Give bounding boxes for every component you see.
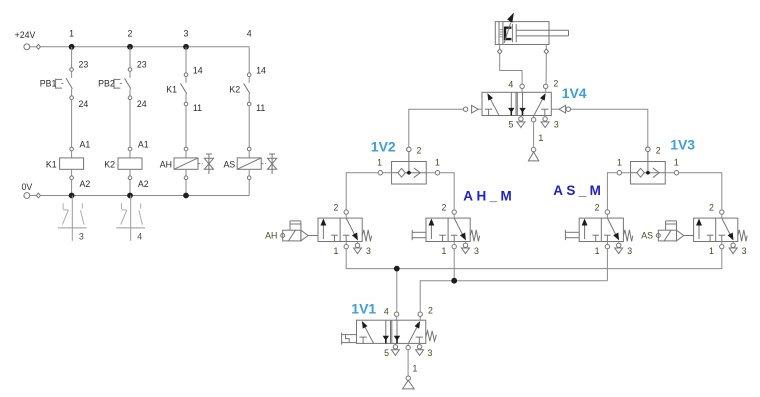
svg-text:14: 14 — [256, 65, 266, 75]
svg-text:1: 1 — [333, 246, 338, 256]
svg-text:K2: K2 — [104, 160, 115, 170]
svg-text:1V2: 1V2 — [371, 139, 396, 155]
svg-text:3: 3 — [79, 231, 84, 241]
svg-text:AS: AS — [641, 230, 653, 240]
svg-text:2: 2 — [553, 79, 558, 89]
svg-text:3: 3 — [742, 246, 747, 256]
svg-text:1: 1 — [595, 246, 600, 256]
svg-text:24: 24 — [79, 99, 89, 109]
svg-text:5: 5 — [384, 348, 389, 358]
svg-text:A2: A2 — [80, 179, 91, 189]
svg-text:AH: AH — [160, 160, 172, 170]
svg-text:K1: K1 — [46, 160, 57, 170]
svg-text:+24V: +24V — [15, 30, 36, 40]
svg-text:1: 1 — [377, 158, 382, 168]
svg-text:4: 4 — [247, 28, 252, 38]
svg-text:1V4: 1V4 — [562, 85, 587, 101]
svg-text:1: 1 — [69, 28, 74, 38]
svg-text:A1: A1 — [138, 140, 149, 150]
svg-text:PB1: PB1 — [40, 79, 57, 89]
svg-text:2: 2 — [656, 145, 661, 155]
svg-text:2: 2 — [128, 28, 133, 38]
svg-text:1: 1 — [435, 158, 440, 168]
svg-text:AS: AS — [223, 160, 235, 170]
svg-text:14: 14 — [193, 65, 203, 75]
svg-text:1V3: 1V3 — [670, 137, 695, 153]
svg-text:2: 2 — [416, 145, 421, 155]
svg-text:1: 1 — [441, 246, 446, 256]
svg-text:1: 1 — [674, 158, 679, 168]
svg-text:K2: K2 — [229, 84, 240, 94]
svg-text:PB2: PB2 — [98, 79, 115, 89]
svg-text:23: 23 — [137, 59, 147, 69]
svg-text:23: 23 — [79, 59, 89, 69]
svg-text:3: 3 — [428, 348, 433, 358]
svg-text:1: 1 — [709, 246, 714, 256]
svg-text:AH_M: AH_M — [463, 189, 515, 204]
svg-text:2: 2 — [428, 306, 433, 316]
svg-text:11: 11 — [193, 103, 202, 113]
svg-text:3: 3 — [474, 246, 479, 256]
svg-text:3: 3 — [554, 120, 559, 130]
svg-text:1V1: 1V1 — [351, 300, 376, 316]
svg-text:5: 5 — [508, 120, 513, 130]
svg-text:2: 2 — [595, 203, 600, 213]
svg-text:1: 1 — [617, 158, 622, 168]
svg-text:K1: K1 — [166, 84, 177, 94]
svg-text:2: 2 — [333, 203, 338, 213]
svg-text:3: 3 — [184, 28, 189, 38]
svg-text:4: 4 — [508, 80, 513, 90]
svg-text:AH: AH — [265, 230, 277, 240]
svg-text:24: 24 — [137, 99, 147, 109]
svg-text:1: 1 — [538, 133, 543, 143]
svg-text:4: 4 — [384, 306, 389, 316]
svg-text:A2: A2 — [138, 179, 149, 189]
svg-text:0V: 0V — [22, 182, 33, 192]
svg-text:A1: A1 — [80, 140, 91, 150]
svg-text:AS_M: AS_M — [553, 183, 604, 198]
svg-text:4: 4 — [137, 231, 142, 241]
svg-text:3: 3 — [627, 246, 632, 256]
svg-text:11: 11 — [256, 103, 265, 113]
svg-text:3: 3 — [366, 246, 371, 256]
svg-text:1: 1 — [412, 363, 417, 373]
svg-text:2: 2 — [709, 203, 714, 213]
svg-text:2: 2 — [441, 203, 446, 213]
